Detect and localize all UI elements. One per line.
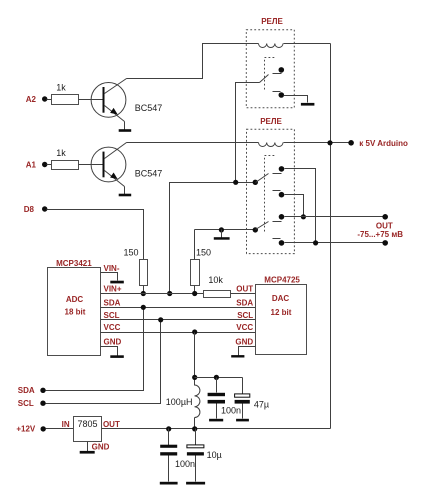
resistor R4 150 — [191, 247, 212, 285]
junction OUT- — [313, 240, 318, 245]
switch K2a pivot — [253, 180, 258, 185]
wire OUT+ line — [285, 216, 386, 218]
svg-text:VIN-: VIN- — [104, 264, 120, 273]
wire R2 to Q2 base — [79, 164, 103, 166]
wire VCC to L1 — [194, 333, 196, 386]
svg-text:150: 150 — [123, 247, 138, 257]
svg-text:к 5V Arduino: к 5V Arduino — [359, 139, 408, 148]
wire C1 top — [216, 378, 218, 393]
regulator U3 7805 — [74, 417, 102, 442]
wire Q2 emitter to ground — [124, 187, 126, 195]
pin GND (ADC) — [101, 337, 122, 355]
resistor R5 10k — [204, 275, 231, 297]
contact K2b down — [273, 239, 285, 246]
wire R5 to DAC OUT — [231, 293, 256, 295]
svg-text:BC547: BC547 — [135, 103, 163, 113]
coil K2 — [259, 143, 284, 147]
wire L1 to +5V rail — [194, 418, 196, 429]
svg-text:SCL: SCL — [104, 311, 120, 320]
svg-text:SCL: SCL — [237, 311, 253, 320]
switch K2b lever — [256, 222, 269, 230]
relay K1 — [246, 17, 294, 108]
junction SDA — [141, 305, 146, 310]
svg-text:47µ: 47µ — [254, 400, 269, 410]
wire SDA bus — [101, 307, 256, 309]
ground VIN- — [110, 281, 124, 284]
transistor Q2 BC547 — [91, 143, 162, 187]
wire relay K1 common — [236, 83, 260, 183]
svg-text:12 bit: 12 bit — [271, 308, 292, 317]
node SCL — [18, 399, 46, 408]
svg-text:A1: A1 — [26, 160, 37, 169]
node +12V — [16, 425, 46, 434]
resistor R1 1k — [52, 82, 79, 104]
ground C4 — [186, 482, 205, 485]
svg-text:D8: D8 — [24, 205, 35, 214]
svg-text:100n: 100n — [221, 406, 241, 416]
svg-text:SDA: SDA — [236, 298, 253, 307]
wire C4 to ground — [195, 456, 197, 482]
ground C2 — [236, 419, 249, 422]
switch K2b pivot — [253, 227, 258, 232]
wire contact K2a down — [285, 195, 304, 217]
junction K2a/K2b — [301, 214, 306, 219]
svg-text:10µ: 10µ — [207, 450, 222, 460]
svg-text:GND: GND — [235, 337, 253, 346]
svg-text:10k: 10k — [208, 275, 223, 285]
wire K1 NC to ground — [284, 96, 308, 103]
capacitor C4 10µ — [187, 445, 222, 460]
contact K2a down — [273, 191, 285, 198]
wire C1 to ground — [216, 404, 218, 419]
IC U2 MCP4725 DAC — [256, 275, 307, 354]
ground C3 — [160, 482, 178, 485]
wire C3 to ground — [168, 456, 170, 482]
wire SCL bus — [101, 319, 256, 321]
wire VCC node horizontal — [195, 377, 243, 379]
ground ADC — [110, 355, 124, 358]
capacitor C3 100n — [160, 445, 195, 469]
junction L1 top — [192, 375, 197, 380]
svg-text:VIN+: VIN+ — [104, 285, 122, 294]
transistor Q1 BC547 — [91, 79, 162, 122]
junction C1 top — [214, 375, 219, 380]
wire D8 to R3 — [47, 210, 144, 260]
contact K2b up — [273, 214, 285, 222]
capacitor C2 47µ — [235, 394, 270, 410]
ground Q2 emitter — [119, 194, 132, 197]
svg-text:MCP4725: MCP4725 — [264, 275, 300, 284]
junction coil K2 / +5V rail — [327, 140, 332, 145]
node D8 — [24, 205, 48, 214]
relay K2 — [247, 117, 295, 254]
node SDA — [18, 386, 46, 395]
ground relay K1 — [301, 103, 315, 106]
svg-text:MCP3421: MCP3421 — [56, 259, 92, 268]
node A1 — [26, 160, 48, 169]
svg-text:SDA: SDA — [104, 298, 121, 307]
wire +12V to 7805 — [46, 428, 74, 430]
coil K1 — [259, 44, 284, 48]
svg-text:РЕЛЕ: РЕЛЕ — [260, 117, 282, 126]
svg-text:VCC: VCC — [104, 323, 121, 332]
svg-text:+12V: +12V — [16, 425, 36, 434]
svg-text:A2: A2 — [26, 95, 37, 104]
svg-text:18 bit: 18 bit — [65, 308, 86, 317]
wire Q1 emitter to ground — [124, 122, 126, 130]
ground switch node — [214, 237, 230, 240]
wire K1 coil to +5V rail — [284, 43, 331, 45]
wire C4 top — [195, 429, 197, 446]
wire relay1 common to K2 switch1 — [170, 183, 256, 294]
wire SCL terminal to bus — [46, 320, 161, 404]
wire contact K2a up to OUT- — [285, 169, 316, 243]
IC U1 MCP3421 ADC — [48, 259, 101, 355]
svg-text:150: 150 — [196, 247, 211, 257]
junction ground node — [219, 227, 224, 232]
resistor R2 1k — [52, 148, 79, 170]
svg-text:7805: 7805 — [77, 419, 97, 429]
junction VIN+ left — [167, 291, 172, 296]
junction R3/VIN+ — [141, 291, 146, 296]
wire VCC bus — [101, 332, 256, 334]
resistor R3 150 — [123, 247, 147, 285]
svg-text:SDA: SDA — [18, 386, 35, 395]
wire K2 coil to 5V node — [284, 142, 349, 144]
svg-text:DAC: DAC — [272, 294, 290, 303]
svg-text:OUT: OUT — [236, 285, 253, 294]
svg-text:IN: IN — [62, 420, 70, 429]
svg-text:SCL: SCL — [18, 399, 34, 408]
node OUT — [357, 214, 403, 246]
K2 mechanical link — [265, 156, 276, 232]
inductor L1 100µH — [166, 385, 200, 418]
wire R1 to Q1 base — [79, 99, 103, 101]
wire R4 top — [194, 230, 196, 260]
svg-text:100µH: 100µH — [166, 397, 193, 407]
junction relay chain — [233, 180, 238, 185]
wire +5V rail vertical — [330, 44, 332, 429]
wire 150 node to K2 switch2 — [195, 229, 256, 231]
wire VIN+ line — [101, 293, 204, 295]
junction C3 — [166, 426, 171, 431]
svg-text:OUT: OUT — [103, 420, 120, 429]
ground Q1 emitter — [119, 129, 132, 132]
switch K2a lever — [256, 174, 269, 183]
svg-text:1k: 1k — [56, 148, 66, 158]
wire A1 to R2 — [47, 164, 52, 166]
svg-text:GND: GND — [104, 337, 122, 346]
wire C3 top — [168, 429, 170, 446]
contact K1 NO — [273, 67, 285, 73]
node к 5V Arduino — [348, 139, 408, 148]
wire SDA terminal to bus — [46, 308, 144, 391]
svg-text:BC547: BC547 — [135, 168, 163, 178]
contact K2a up — [273, 166, 285, 173]
ground 7805 — [80, 451, 95, 454]
wire C2 top — [242, 378, 244, 394]
wire +5V rail bottom — [102, 428, 331, 430]
wire node to ground — [221, 230, 223, 238]
capacitor C1 100n — [208, 393, 241, 416]
ground C1 — [209, 419, 223, 422]
svg-text:РЕЛЕ: РЕЛЕ — [261, 17, 283, 26]
junction C4/L1 — [192, 426, 197, 431]
svg-text:VCC: VCC — [236, 323, 253, 332]
junction SCL — [158, 317, 163, 322]
switch K1 lever — [260, 75, 269, 83]
wire C2 to ground — [242, 404, 244, 419]
svg-text:GND: GND — [92, 442, 110, 451]
junction R4/VIN+ — [192, 291, 197, 296]
pin GND (DAC) — [235, 337, 255, 355]
svg-text:1k: 1k — [56, 82, 66, 92]
svg-text:-75...+75 мВ: -75...+75 мВ — [357, 230, 403, 239]
wire Q2 collector to relay K2 coil — [127, 142, 259, 144]
svg-text:100n: 100n — [175, 459, 195, 469]
K1 mechanical link — [265, 58, 275, 90]
wire OUT- line — [285, 242, 386, 244]
junction VCC — [192, 329, 197, 334]
ground DAC — [231, 355, 244, 357]
pin VIN- — [101, 264, 120, 281]
wire 7805 GND — [87, 442, 89, 452]
contact K1 NC — [273, 92, 285, 98]
node A2 — [26, 95, 48, 104]
svg-text:ADC: ADC — [66, 295, 84, 304]
wire Q1 collector to relay K1 coil — [127, 44, 259, 79]
wire R3 to VIN+ — [143, 286, 145, 294]
wire A2 to R1 — [47, 99, 52, 101]
wire R4 bottom — [194, 286, 196, 294]
